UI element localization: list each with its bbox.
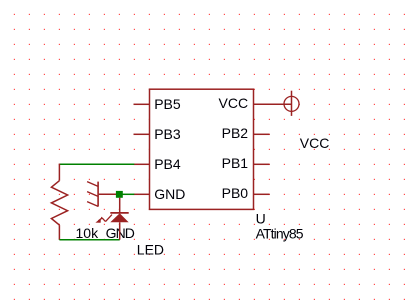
pin GND [134, 186, 186, 202]
svg-text:PB0: PB0 [222, 185, 249, 201]
svg-text:PB1: PB1 [222, 155, 249, 171]
svg-text:PB4: PB4 [154, 156, 181, 172]
IC U ATtiny85 body [150, 89, 254, 209]
LED D1 [95, 198, 128, 240]
pin PB3 [134, 126, 181, 142]
svg-text:GND: GND [154, 186, 185, 202]
svg-text:U: U [256, 211, 266, 227]
pin PB1 [222, 155, 270, 171]
svg-text:VCC: VCC [300, 135, 330, 151]
junction node [116, 191, 123, 198]
pin PB4 [134, 156, 181, 172]
VCC supply symbol [284, 91, 299, 116]
svg-text:PB2: PB2 [222, 125, 249, 141]
resistor R 10k [51, 164, 67, 240]
pin PB2 [222, 125, 270, 141]
svg-text:VCC: VCC [219, 95, 249, 111]
svg-text:PB3: PB3 [154, 126, 181, 142]
pin PB0 [222, 185, 270, 201]
svg-text:LED: LED [137, 241, 164, 257]
wire PB4 to resistor [59, 163, 134, 165]
wire resistor bottom to LED anode [59, 239, 119, 241]
svg-text:ATtiny85: ATtiny85 [256, 226, 304, 242]
wire junction to GND pin [119, 193, 134, 195]
pin PB5 (pin stub + label) [134, 96, 181, 112]
pin VCC [219, 95, 292, 111]
svg-text:10k: 10k [76, 225, 100, 241]
svg-text:PB5: PB5 [154, 96, 181, 112]
ground GND chassis symbol [87, 182, 116, 207]
